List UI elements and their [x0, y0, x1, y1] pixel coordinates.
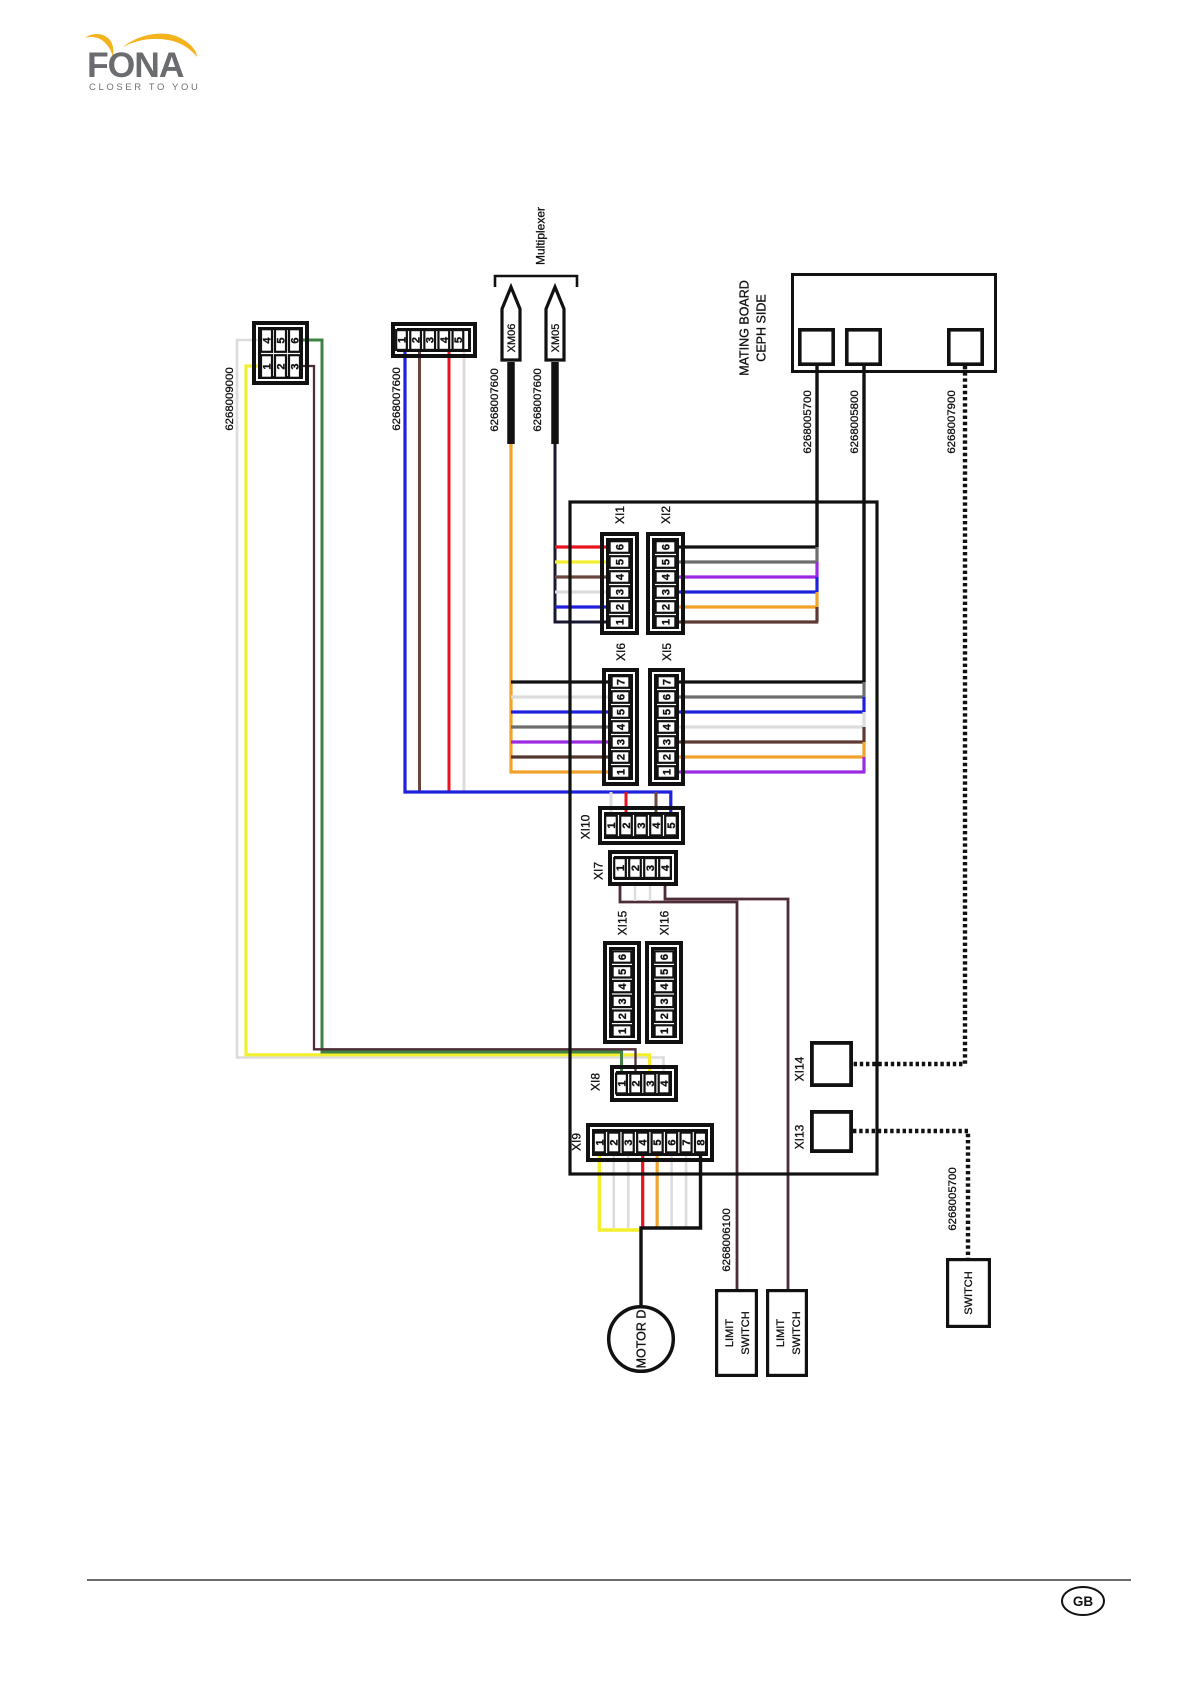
svg-text:5: 5: [617, 969, 629, 975]
svg-text:MOTOR D: MOTOR D: [635, 1310, 649, 1369]
wire orange XI9 pin5: [656, 1150, 659, 1228]
svg-text:5: 5: [614, 559, 626, 565]
connector XI2: [648, 534, 683, 633]
wire cable merge stub XI5: [862, 682, 865, 697]
svg-text:3: 3: [617, 998, 629, 1004]
wire white stub into XI10 pin1: [610, 792, 613, 813]
svg-text:2: 2: [617, 1013, 629, 1019]
svg-text:4: 4: [660, 573, 672, 580]
connector XI10: [600, 808, 683, 843]
svg-text:1: 1: [617, 1028, 629, 1034]
svg-text:3: 3: [645, 865, 657, 871]
svg-text:XI1: XI1: [613, 506, 627, 524]
svg-text:6268007600: 6268007600: [391, 367, 403, 430]
svg-text:4: 4: [659, 983, 671, 990]
wire black XI5 pin7: [679, 680, 865, 683]
svg-text:XI7: XI7: [591, 862, 605, 880]
svg-text:3: 3: [614, 589, 626, 595]
svg-text:6: 6: [617, 954, 629, 960]
mating board connector square 1: [800, 330, 833, 364]
svg-text:1: 1: [615, 769, 627, 775]
svg-text:3: 3: [623, 1139, 635, 1145]
wire cable merge stub XI5: [862, 697, 865, 712]
svg-text:XI5: XI5: [660, 643, 674, 661]
dashed cable 6268007900 mating board to XI14: [853, 366, 965, 1064]
svg-text:CEPH SIDE: CEPH SIDE: [755, 294, 769, 361]
svg-text:CLOSER TO YOU: CLOSER TO YOU: [89, 82, 200, 93]
svg-text:1: 1: [594, 1139, 606, 1145]
svg-text:5: 5: [659, 969, 671, 975]
wire white 6268009000 pin4 to XI8 pin4: [237, 340, 664, 1072]
cable XM05 thick lead: [551, 362, 559, 444]
wire red XI9 pin4: [641, 1150, 644, 1228]
svg-text:XI2: XI2: [659, 506, 673, 524]
wire brown XI5 pin3: [679, 740, 865, 743]
connector XI8: [612, 1067, 676, 1100]
svg-text:SWITCH: SWITCH: [963, 1271, 975, 1314]
svg-text:1: 1: [396, 337, 408, 343]
wire white XI9 pin2: [612, 1150, 615, 1228]
dashed cable 6268005700 XI13 to switch: [853, 1131, 968, 1258]
svg-text:1: 1: [616, 1080, 628, 1086]
svg-text:4: 4: [638, 1139, 650, 1146]
svg-text:1: 1: [614, 619, 626, 625]
svg-text:4: 4: [659, 1080, 671, 1087]
mating board connector square 2: [847, 330, 880, 364]
svg-text:1: 1: [615, 865, 627, 871]
connector XI15: [605, 943, 639, 1042]
svg-text:3: 3: [636, 822, 648, 828]
connector XI9: [588, 1125, 712, 1160]
svg-text:2: 2: [659, 1013, 671, 1019]
svg-text:5: 5: [652, 1139, 664, 1145]
FONA logo swoosh: [85, 34, 197, 57]
multiplexer bracket: [495, 276, 577, 287]
svg-text:XI8: XI8: [588, 1073, 602, 1091]
svg-text:2: 2: [660, 604, 672, 610]
footer line: [87, 1579, 1131, 1581]
wire blue conn5 pin1 bundle to XI10 pin5: [405, 352, 671, 813]
connector 6-pin 6268009000: [254, 323, 307, 383]
wire cable merge stub XI2: [815, 562, 818, 577]
svg-text:SWITCH: SWITCH: [740, 1311, 752, 1354]
wire cable merge stub XI2: [815, 547, 818, 562]
svg-text:2: 2: [609, 1139, 621, 1145]
wire black XI6 pin7: [511, 680, 608, 683]
wire cable merge stub XI2: [815, 607, 818, 622]
plug XM05: [546, 287, 564, 360]
svg-text:6268007900: 6268007900: [946, 390, 958, 453]
PCB board outline: [570, 502, 877, 1174]
wire white XI6 pin6: [511, 695, 608, 698]
wire cable merge stub XI2: [815, 592, 818, 607]
svg-text:2: 2: [614, 604, 626, 610]
connector XI13: [812, 1112, 851, 1151]
wire purple XI2 pin4: [679, 575, 818, 578]
wire orange XM06 to XI6 pin1: [511, 443, 608, 772]
svg-text:2: 2: [631, 1080, 643, 1086]
svg-text:2: 2: [411, 337, 423, 343]
wire purple XI5 pin1: [679, 770, 865, 773]
svg-text:3: 3: [645, 1080, 657, 1086]
wire maroon XI7 pin1 to limit switch 1: [620, 882, 737, 1289]
connector XI6: [604, 670, 637, 784]
svg-text:1: 1: [606, 822, 618, 828]
wire red conn5 pin4 to bundle: [448, 352, 451, 792]
wire red stub into XI10 pin2: [625, 792, 628, 813]
svg-text:XI6: XI6: [614, 643, 628, 661]
wire yellow XI9 pin1: [599, 1150, 641, 1230]
wire cable merge stub XI5: [862, 712, 865, 727]
wire cable merge stub XI5: [862, 727, 865, 742]
svg-text:5: 5: [666, 822, 678, 828]
wire red XI1 pin6: [555, 545, 606, 548]
wire blue XI1 pin2: [555, 605, 606, 608]
wire black XM05 to XI1 pin1: [555, 443, 606, 622]
wire orange XI5 pin2: [679, 755, 865, 758]
svg-text:2: 2: [661, 754, 673, 760]
svg-text:XI10: XI10: [578, 814, 592, 839]
svg-text:FONA: FONA: [87, 45, 184, 85]
plug XM06: [502, 287, 520, 360]
limit switch 1: [717, 1291, 757, 1376]
svg-text:5: 5: [615, 709, 627, 715]
wire cable merge stub XI5: [862, 742, 865, 757]
wire blue XI5 pin5: [679, 710, 865, 713]
svg-text:3: 3: [661, 739, 673, 745]
svg-text:3: 3: [289, 363, 301, 369]
connector conn5: [393, 324, 475, 356]
svg-text:XI14: XI14: [792, 1056, 806, 1081]
wire brown 6268009000 pin3 to XI8 pin2: [303, 366, 636, 1072]
svg-text:XI13: XI13: [792, 1124, 806, 1149]
svg-text:4: 4: [615, 723, 627, 730]
wire green 6268009000 pin6 to XI8 pin1: [303, 340, 622, 1072]
svg-text:6268009000: 6268009000: [224, 367, 236, 430]
wire orange XI2 pin2: [679, 605, 818, 608]
svg-text:3: 3: [660, 589, 672, 595]
wire gray XI2 pin5: [679, 560, 818, 563]
wire gray XI5 pin6: [679, 695, 865, 698]
svg-text:XM05: XM05: [550, 324, 562, 353]
connector XI7: [610, 852, 676, 884]
motor D: [609, 1307, 674, 1372]
wire brown XI1 pin4: [555, 575, 606, 578]
svg-text:6268007600: 6268007600: [532, 368, 544, 431]
wire gray XI6 pin4: [511, 725, 608, 728]
wire white XI5 pin4: [679, 725, 865, 728]
wire brown conn5 pin2 to bundle: [418, 352, 421, 792]
wire white XI9 pin3: [627, 1150, 630, 1228]
svg-text:2: 2: [615, 754, 627, 760]
svg-text:5: 5: [275, 337, 287, 343]
svg-text:7: 7: [681, 1139, 693, 1145]
svg-text:2: 2: [621, 822, 633, 828]
connector XI1: [602, 534, 637, 633]
svg-text:5: 5: [660, 559, 672, 565]
wire white conn5 pin5 to bundle: [463, 352, 466, 792]
svg-text:4: 4: [651, 822, 663, 829]
svg-text:8: 8: [695, 1139, 707, 1145]
wire cable merge stub XI5: [862, 757, 865, 772]
svg-text:5: 5: [453, 337, 465, 343]
wire blue XI6 pin5: [511, 710, 608, 713]
svg-text:6268006100: 6268006100: [721, 1208, 733, 1271]
svg-text:6: 6: [289, 337, 301, 343]
mating board connector square 3: [949, 330, 982, 364]
svg-text:4: 4: [660, 864, 672, 871]
wire brown XI6 pin2: [511, 755, 608, 758]
svg-text:3: 3: [425, 337, 437, 343]
cable 6268005700 mating board to XI2: [815, 366, 818, 547]
wire blue XI2 pin3: [679, 590, 818, 593]
svg-text:4: 4: [614, 573, 626, 580]
svg-text:7: 7: [661, 679, 673, 685]
svg-text:3: 3: [659, 998, 671, 1004]
svg-text:6: 6: [614, 544, 626, 550]
wire brown stub into XI10 pin4: [655, 792, 658, 813]
cable 6268005800 mating board to XI5: [862, 366, 865, 682]
wire white XI7 pin2 stub: [634, 882, 636, 901]
svg-text:Multiplexer: Multiplexer: [533, 207, 547, 265]
connector XI5: [650, 670, 683, 784]
svg-text:MATING BOARD: MATING BOARD: [738, 280, 752, 376]
svg-text:LIMIT: LIMIT: [724, 1319, 736, 1347]
svg-text:6: 6: [661, 694, 673, 700]
svg-text:6268005700: 6268005700: [802, 390, 814, 453]
svg-text:XM06: XM06: [506, 324, 518, 353]
wire white XI7 pin3 stub: [649, 882, 651, 901]
wire white XI9 pin7: [685, 1150, 688, 1228]
svg-text:6268005700: 6268005700: [947, 1167, 959, 1230]
svg-text:4: 4: [439, 336, 451, 343]
wire brown XI7 pin4 to limit switch 2: [665, 882, 788, 1289]
svg-text:1: 1: [659, 1028, 671, 1034]
svg-text:6: 6: [615, 694, 627, 700]
svg-text:XI15: XI15: [615, 910, 629, 935]
svg-text:SWITCH: SWITCH: [791, 1311, 803, 1354]
svg-text:2: 2: [630, 865, 642, 871]
wire purple XI6 pin3: [511, 740, 608, 743]
svg-text:XI9: XI9: [569, 1133, 583, 1151]
wire black XI9 pin8 to motor lead: [641, 1150, 701, 1306]
wire brown XI2 pin1: [679, 620, 818, 623]
GB badge: [1062, 1587, 1104, 1615]
svg-text:4: 4: [617, 983, 629, 990]
wire white XI1 pin3: [555, 590, 606, 593]
svg-text:XI16: XI16: [657, 910, 671, 935]
cable XM06 thick lead: [507, 362, 515, 444]
svg-text:5: 5: [661, 709, 673, 715]
svg-text:1: 1: [661, 769, 673, 775]
wire black XI2 pin6: [679, 545, 818, 548]
switch box: [948, 1260, 990, 1327]
svg-text:4: 4: [661, 723, 673, 730]
svg-text:1: 1: [261, 363, 273, 369]
wire yellow 6268009000 pin1 to XI8 pin3: [246, 366, 650, 1072]
svg-text:3: 3: [615, 739, 627, 745]
connector XI16: [647, 943, 681, 1042]
svg-text:6: 6: [667, 1139, 679, 1145]
limit switch 2: [768, 1291, 807, 1376]
svg-text:6: 6: [659, 954, 671, 960]
wire cable merge stub XI2: [815, 577, 818, 592]
svg-text:6: 6: [660, 544, 672, 550]
mating board ceph side box: [793, 275, 996, 372]
svg-text:1: 1: [660, 619, 672, 625]
svg-text:7: 7: [615, 679, 627, 685]
label MATING BOARD CEPH SIDE: [738, 280, 769, 376]
svg-text:4: 4: [261, 337, 273, 344]
svg-text:6268005800: 6268005800: [849, 390, 861, 453]
svg-text:6268007600: 6268007600: [489, 368, 501, 431]
wire white XI9 pin6: [670, 1150, 673, 1228]
wire yellow XI1 pin5: [555, 560, 606, 563]
svg-text:LIMIT: LIMIT: [775, 1319, 787, 1347]
svg-text:2: 2: [275, 363, 287, 369]
connector XI14: [812, 1043, 851, 1085]
svg-text:GB: GB: [1073, 1594, 1094, 1609]
